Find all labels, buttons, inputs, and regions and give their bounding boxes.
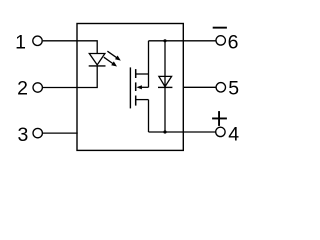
pin 1 terminal [33,36,42,45]
svg-text:4: 4 [228,123,239,145]
svg-text:5: 5 [228,78,239,100]
light emission arrow 1 [107,51,120,60]
junction bottom rail / diode [163,130,166,133]
wire pin1 to LED anode [43,41,97,54]
minus polarity mark at pin 6 [213,27,227,29]
pin 2 terminal [33,83,42,92]
svg-text:1: 1 [15,31,26,53]
diode D2 cathode bar [158,86,172,88]
package outline U1 [77,24,183,151]
wire LED cathode to pin 2 [43,66,97,88]
junction top rail / diode [163,39,166,42]
light emission arrow 2 [104,57,117,66]
pin 5 terminal [216,83,225,92]
MOSFET Q1 gate line [129,67,131,108]
pin 3 terminal [33,128,42,137]
wire pin 3 stub to case [43,132,78,134]
svg-text:2: 2 [17,78,28,100]
MOSFET Q1 channel segments [135,69,137,106]
svg-text:6: 6 [228,31,239,53]
MOSFET Q1 drain stub [136,73,149,75]
MOSFET Q1 source stub [136,99,149,101]
pin 4 terminal [216,127,225,136]
wire source rail vertical [148,100,150,132]
diode D2 triangle [159,76,172,86]
wire bottom rail to pin 4 [149,131,217,133]
wire drain rail vertical [148,41,150,88]
MOSFET Q1 body arrow [136,85,148,89]
LED D1 triangle [89,54,105,65]
wire pin 5 stub to case [183,86,216,88]
plus polarity mark at pin 4 [212,111,227,126]
diode D2 vertical wire [164,41,166,132]
pin 6 terminal [216,36,225,45]
svg-text:3: 3 [17,124,28,146]
wire top rail to pin 6 [149,40,217,42]
LED D1 cathode bar [89,65,106,67]
